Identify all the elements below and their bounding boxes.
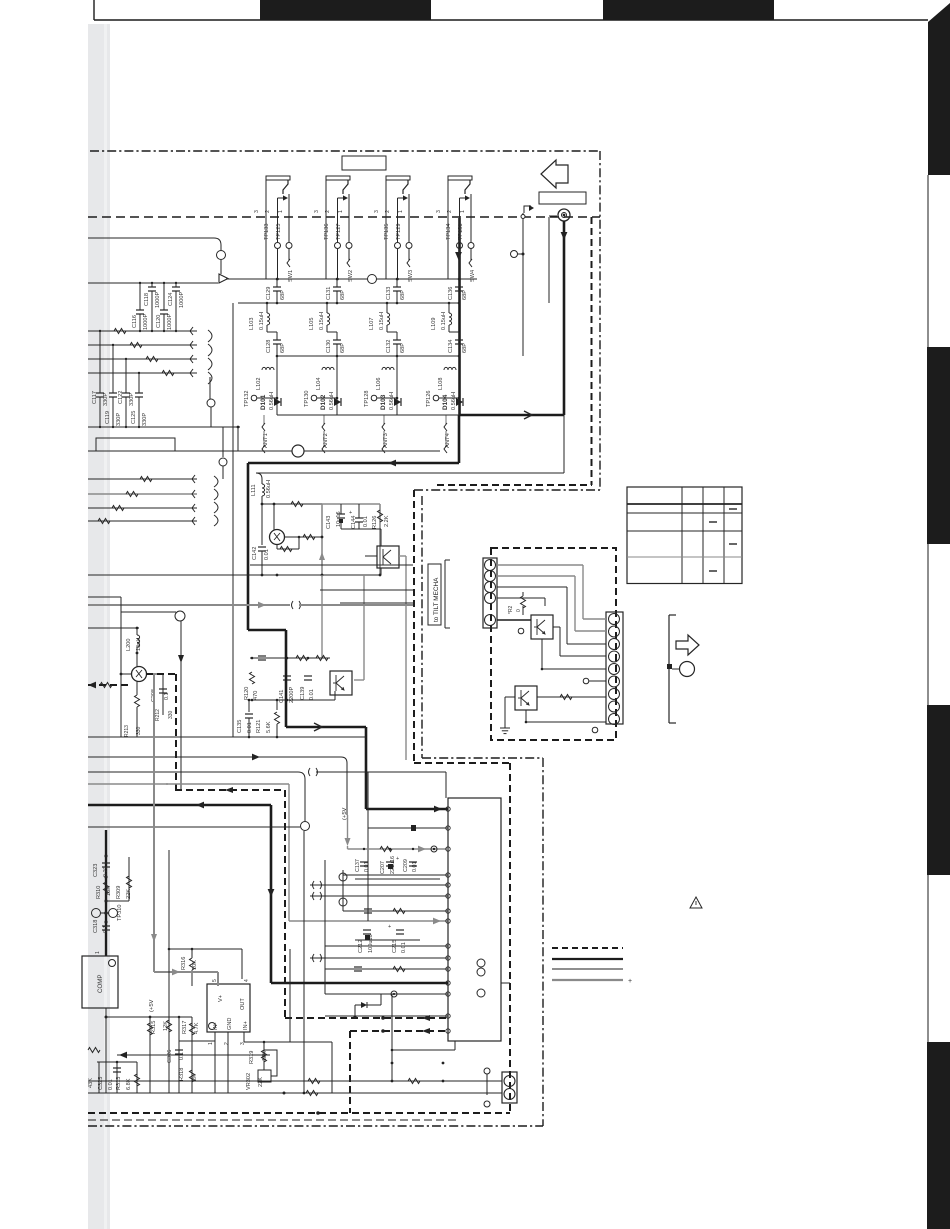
svg-text:TP135: TP135 (384, 224, 390, 240)
svg-text:(+5V: (+5V (149, 999, 155, 1012)
svg-text:68P: 68P (400, 290, 406, 300)
svg-text:V+: V+ (218, 995, 224, 1002)
svg-text:R126: R126 (372, 516, 378, 529)
svg-text:TP127: TP127 (336, 224, 342, 240)
svg-text:1000P: 1000P (179, 292, 185, 308)
svg-text:0: 0 (516, 609, 522, 612)
svg-text:0.01: 0.01 (412, 862, 418, 873)
svg-text:1: 1 (95, 951, 101, 954)
svg-text:C212: C212 (358, 940, 364, 953)
svg-text:C325: C325 (98, 1077, 104, 1090)
svg-text:IN+: IN+ (243, 1021, 249, 1030)
svg-text:R121: R121 (256, 720, 262, 733)
svg-text:C132: C132 (386, 340, 392, 353)
svg-text:0.15uH: 0.15uH (441, 312, 447, 330)
svg-text:1: 1 (460, 210, 466, 213)
svg-text:68P: 68P (462, 290, 468, 300)
svg-text:C135: C135 (237, 720, 243, 733)
svg-text:2.2K: 2.2K (384, 515, 390, 527)
svg-text:C134: C134 (448, 340, 454, 353)
svg-text:3: 3 (314, 210, 320, 213)
svg-text:R316: R316 (181, 957, 187, 970)
svg-text:R213: R213 (124, 725, 130, 737)
svg-text:330: 330 (136, 726, 142, 735)
svg-text:12K: 12K (262, 1051, 268, 1061)
svg-text:+: + (388, 924, 391, 930)
svg-text:10u16: 10u16 (336, 511, 342, 527)
svg-text:L108: L108 (438, 378, 444, 390)
svg-text:L107: L107 (369, 318, 375, 330)
svg-text:C143: C143 (326, 516, 332, 529)
svg-text:R309: R309 (116, 886, 122, 899)
svg-text:330P: 330P (129, 393, 135, 406)
svg-text:2: 2 (447, 210, 453, 213)
svg-text:SW3: SW3 (408, 270, 414, 282)
svg-text:0.01: 0.01 (401, 942, 407, 953)
svg-text:0.15uH: 0.15uH (259, 312, 265, 330)
svg-text:R313: R313 (116, 1077, 122, 1090)
svg-text:D103: D103 (380, 394, 387, 410)
svg-text:0.22: 0.22 (103, 866, 109, 877)
svg-text:5.6K: 5.6K (266, 721, 272, 733)
svg-text:C116: C116 (132, 315, 138, 328)
svg-text:L200: L200 (126, 639, 132, 651)
svg-text:0.01: 0.01 (364, 862, 370, 873)
svg-text:4: 4 (244, 979, 250, 982)
svg-text:43K: 43K (88, 1078, 94, 1088)
svg-text:TP130: TP130 (304, 391, 310, 407)
svg-text:1: 1 (278, 210, 284, 213)
svg-text:C131: C131 (326, 287, 332, 300)
svg-text:2200P: 2200P (289, 687, 295, 703)
svg-text:L105: L105 (309, 318, 315, 330)
svg-text:C120: C120 (156, 315, 162, 328)
svg-text:R318: R318 (179, 1068, 185, 1081)
svg-text:330P: 330P (142, 413, 148, 426)
svg-text:TP126: TP126 (426, 391, 432, 407)
svg-text:2: 2 (224, 1042, 230, 1045)
svg-text:SW4: SW4 (470, 270, 476, 282)
svg-text:470: 470 (253, 691, 259, 700)
svg-text:0.1: 0.1 (179, 1052, 185, 1060)
svg-text:0.15uH: 0.15uH (319, 312, 325, 330)
svg-text:68P: 68P (400, 343, 406, 353)
svg-text:C125: C125 (131, 411, 137, 424)
svg-text:+: + (628, 978, 632, 985)
svg-text:1: 1 (208, 1042, 214, 1045)
svg-text:0.01: 0.01 (363, 516, 369, 527)
svg-text:SW2: SW2 (348, 270, 354, 282)
svg-text:0.01: 0.01 (247, 722, 253, 733)
svg-text:OUT: OUT (240, 998, 246, 1010)
svg-text:+: + (396, 856, 399, 862)
svg-text:4.7K: 4.7K (194, 1022, 200, 1034)
svg-text:3: 3 (374, 210, 380, 213)
svg-text:C133: C133 (386, 287, 392, 300)
svg-text:68P: 68P (280, 343, 286, 353)
svg-text:6.8K: 6.8K (126, 1078, 132, 1090)
svg-text:C209: C209 (403, 859, 409, 872)
svg-text:TP131: TP131 (458, 224, 464, 240)
svg-text:C318: C318 (93, 920, 99, 933)
svg-text:TP129: TP129 (396, 224, 402, 240)
svg-text:1000P: 1000P (143, 314, 149, 330)
svg-text:to TILT MECHA: to TILT MECHA (433, 577, 440, 622)
svg-text:TP132: TP132 (244, 391, 250, 407)
svg-text:C118: C118 (144, 293, 150, 306)
svg-text:10uH: 10uH (136, 638, 142, 651)
svg-text:C130: C130 (326, 340, 332, 353)
svg-text:1: 1 (398, 210, 404, 213)
svg-text:10K: 10K (106, 886, 112, 896)
svg-text:TP134: TP134 (446, 224, 452, 240)
svg-text:L103: L103 (249, 318, 255, 330)
svg-text:TP136: TP136 (324, 224, 330, 240)
svg-text:330P: 330P (116, 413, 122, 426)
svg-text:L109: L109 (431, 318, 437, 330)
svg-text:R319: R319 (249, 1051, 255, 1064)
svg-text:0.01: 0.01 (264, 549, 270, 560)
svg-text:C129: C129 (266, 287, 272, 300)
svg-text:1000P: 1000P (167, 314, 173, 330)
svg-text:22K: 22K (258, 1077, 264, 1087)
svg-text:L102: L102 (256, 378, 262, 390)
svg-text:TP133: TP133 (264, 224, 270, 240)
svg-text:C122: C122 (118, 391, 124, 404)
svg-text:C142: C142 (252, 547, 258, 560)
svg-text:C124: C124 (168, 293, 174, 306)
svg-text:2: 2 (325, 210, 331, 213)
svg-text:68P: 68P (462, 343, 468, 353)
svg-text:C119: C119 (105, 411, 111, 424)
svg-text:IN-: IN- (213, 1022, 219, 1030)
svg-text:R120: R120 (244, 687, 250, 700)
svg-text:D102: D102 (320, 394, 327, 410)
svg-text:68P: 68P (280, 290, 286, 300)
svg-text:C326: C326 (167, 1050, 173, 1063)
svg-text:C139: C139 (300, 687, 306, 700)
svg-text:C323: C323 (93, 864, 99, 877)
svg-text:R212: R212 (155, 709, 161, 721)
svg-text:0.15uH: 0.15uH (379, 312, 385, 330)
svg-text:3: 3 (254, 210, 260, 213)
svg-text:COMP: COMP (97, 974, 104, 993)
svg-text:68P: 68P (340, 290, 346, 300)
svg-text:C117: C117 (92, 391, 98, 404)
svg-text:2K: 2K (192, 1074, 198, 1081)
svg-text:2: 2 (265, 210, 271, 213)
svg-text:1000P: 1000P (155, 292, 161, 308)
svg-text:GND: GND (227, 1018, 233, 1030)
svg-text:L111: L111 (251, 484, 257, 496)
svg-text:C128: C128 (266, 340, 272, 353)
svg-text:L104: L104 (316, 378, 322, 390)
svg-text:C136: C136 (448, 287, 454, 300)
svg-text:C207: C207 (380, 861, 386, 874)
svg-text:R310: R310 (96, 886, 102, 899)
svg-text:C144: C144 (351, 516, 357, 529)
svg-text:+: + (349, 510, 352, 516)
svg-text:R317: R317 (182, 1021, 188, 1034)
svg-text:330: 330 (168, 710, 174, 719)
svg-text:C215: C215 (392, 940, 398, 953)
svg-text:0.1: 0.1 (164, 693, 170, 701)
svg-text:L106: L106 (376, 378, 382, 390)
svg-text:0.56uH: 0.56uH (266, 480, 272, 498)
svg-text:0.01: 0.01 (309, 689, 315, 700)
svg-text:3: 3 (436, 210, 442, 213)
svg-text:TP128: TP128 (364, 391, 370, 407)
svg-text:C141: C141 (279, 690, 285, 703)
svg-text:330P: 330P (103, 393, 109, 406)
svg-text:D104: D104 (442, 394, 449, 410)
svg-text:68P: 68P (340, 343, 346, 353)
svg-text:1: 1 (338, 210, 344, 213)
svg-text:2: 2 (385, 210, 391, 213)
svg-text:*R2: *R2 (508, 605, 514, 614)
svg-text:TP125: TP125 (276, 224, 282, 240)
svg-text:SW1: SW1 (288, 270, 294, 282)
svg-text:D101: D101 (260, 394, 267, 410)
